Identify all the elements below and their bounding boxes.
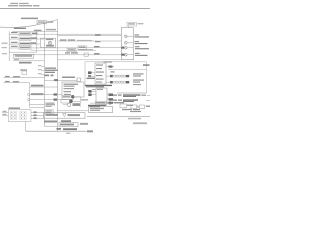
label block B — [45, 110, 54, 114]
label on wire y103 — [96, 101, 107, 105]
fuse block top edge — [12, 30, 57, 32]
input wire A — [4, 76, 45, 78]
lower-left connector label — [9, 107, 21, 109]
U2 left pins — [88, 89, 96, 96]
connector label box top right — [127, 22, 144, 27]
header rule — [0, 8, 150, 10]
pin chain row 2 — [106, 80, 144, 86]
long wire L2 — [58, 35, 122, 37]
input wire B — [4, 81, 30, 83]
ECU box U1 — [95, 61, 112, 84]
fuse block label — [14, 28, 26, 29]
fuse row 1 wire — [9, 32, 121, 36]
right wire row A — [113, 94, 150, 97]
connector cells — [10, 111, 26, 119]
schematic title text — [21, 18, 38, 20]
connector left stubs — [2, 111, 8, 116]
connector X1 row 4 — [124, 53, 147, 56]
row3 right label — [31, 42, 37, 43]
junction node 2 — [28, 98, 30, 100]
wire C — [30, 85, 58, 87]
pin chain row 1 — [106, 73, 144, 77]
box M1 lower right — [89, 106, 113, 112]
page border right segment — [87, 116, 150, 118]
bus x44.3 — [43, 24, 45, 126]
ECU box U2 — [96, 88, 107, 104]
arrow diamond — [90, 101, 124, 105]
lamp box bottom — [59, 123, 88, 127]
small component mid-left — [20, 69, 27, 74]
lamp label above box — [61, 120, 71, 122]
lower-left connector box — [8, 110, 31, 122]
bus x36.8 — [36, 31, 38, 52]
node bus x29.5 — [29, 83, 31, 108]
bold label band 1 — [85, 85, 112, 88]
terminal text block — [44, 68, 58, 77]
bottom feed line — [44, 125, 57, 127]
bottom-right component cluster — [120, 104, 150, 112]
long wire L5 — [31, 49, 96, 52]
connector cell pins — [11, 112, 25, 119]
bus labels above fuse block — [34, 30, 42, 31]
ECU left pins — [88, 71, 95, 77]
wire from ECU top pin — [106, 64, 150, 69]
connector X1 row 1 — [124, 34, 149, 37]
fuse row 2 — [9, 37, 44, 41]
connector right wires — [31, 111, 44, 119]
wire labels under diode box — [44, 121, 57, 123]
wire D — [30, 93, 62, 95]
connector cluster row 1 — [62, 94, 81, 100]
relay K3 box — [62, 82, 84, 97]
connector X1 box — [121, 28, 133, 60]
U2 right pins — [107, 94, 113, 104]
page note 1 — [128, 118, 141, 120]
connector cluster row 2 — [61, 100, 81, 104]
connector X1 row 2 — [124, 41, 147, 44]
bus x57.6 — [57, 20, 59, 132]
wire under connector X1 — [58, 59, 134, 61]
diode assembly box — [44, 113, 85, 119]
wire under fuse block — [13, 59, 44, 64]
feed wires to bus — [30, 104, 45, 107]
connector X1 row 3 — [124, 46, 149, 49]
row5 left stub label — [2, 53, 7, 54]
wire E — [30, 99, 61, 101]
wire M1 feed — [58, 110, 89, 112]
page note 2 — [133, 122, 147, 124]
ECU side note — [87, 78, 96, 79]
faint enclosure bottom right — [117, 92, 147, 94]
label box K1 — [37, 21, 46, 24]
connector X1 vertical feed — [120, 28, 122, 60]
label block A — [46, 103, 56, 107]
fuse row 3 — [2, 42, 41, 46]
L4 wire label — [94, 46, 100, 47]
junction node 1 — [28, 93, 30, 95]
fuse block lower box — [13, 54, 33, 58]
wire to relay K3 — [44, 77, 80, 82]
bottom ground rail — [26, 128, 93, 134]
cluster bus x80.5 — [80, 97, 82, 107]
connector cluster row 3 — [63, 99, 88, 106]
stub wires on bus x44 — [38, 65, 44, 74]
fuse row 5 / long wire L6 — [9, 52, 124, 56]
bold label band 2 — [88, 105, 106, 107]
right wire row B — [113, 99, 150, 102]
chain row1 pin label — [111, 71, 115, 72]
long wire L3 fuse labels — [58, 34, 122, 42]
harness curve — [0, 20, 58, 28]
connector drop x25.6 — [25, 121, 27, 131]
row4 left stub label — [2, 47, 8, 48]
relay K2 box — [40, 38, 55, 47]
enclosure dashed area — [85, 62, 147, 93]
fuse row 4 / long wire L4 — [9, 46, 124, 50]
L6 wire label — [94, 53, 100, 54]
left bus — [8, 31, 10, 61]
header title text — [8, 3, 40, 7]
